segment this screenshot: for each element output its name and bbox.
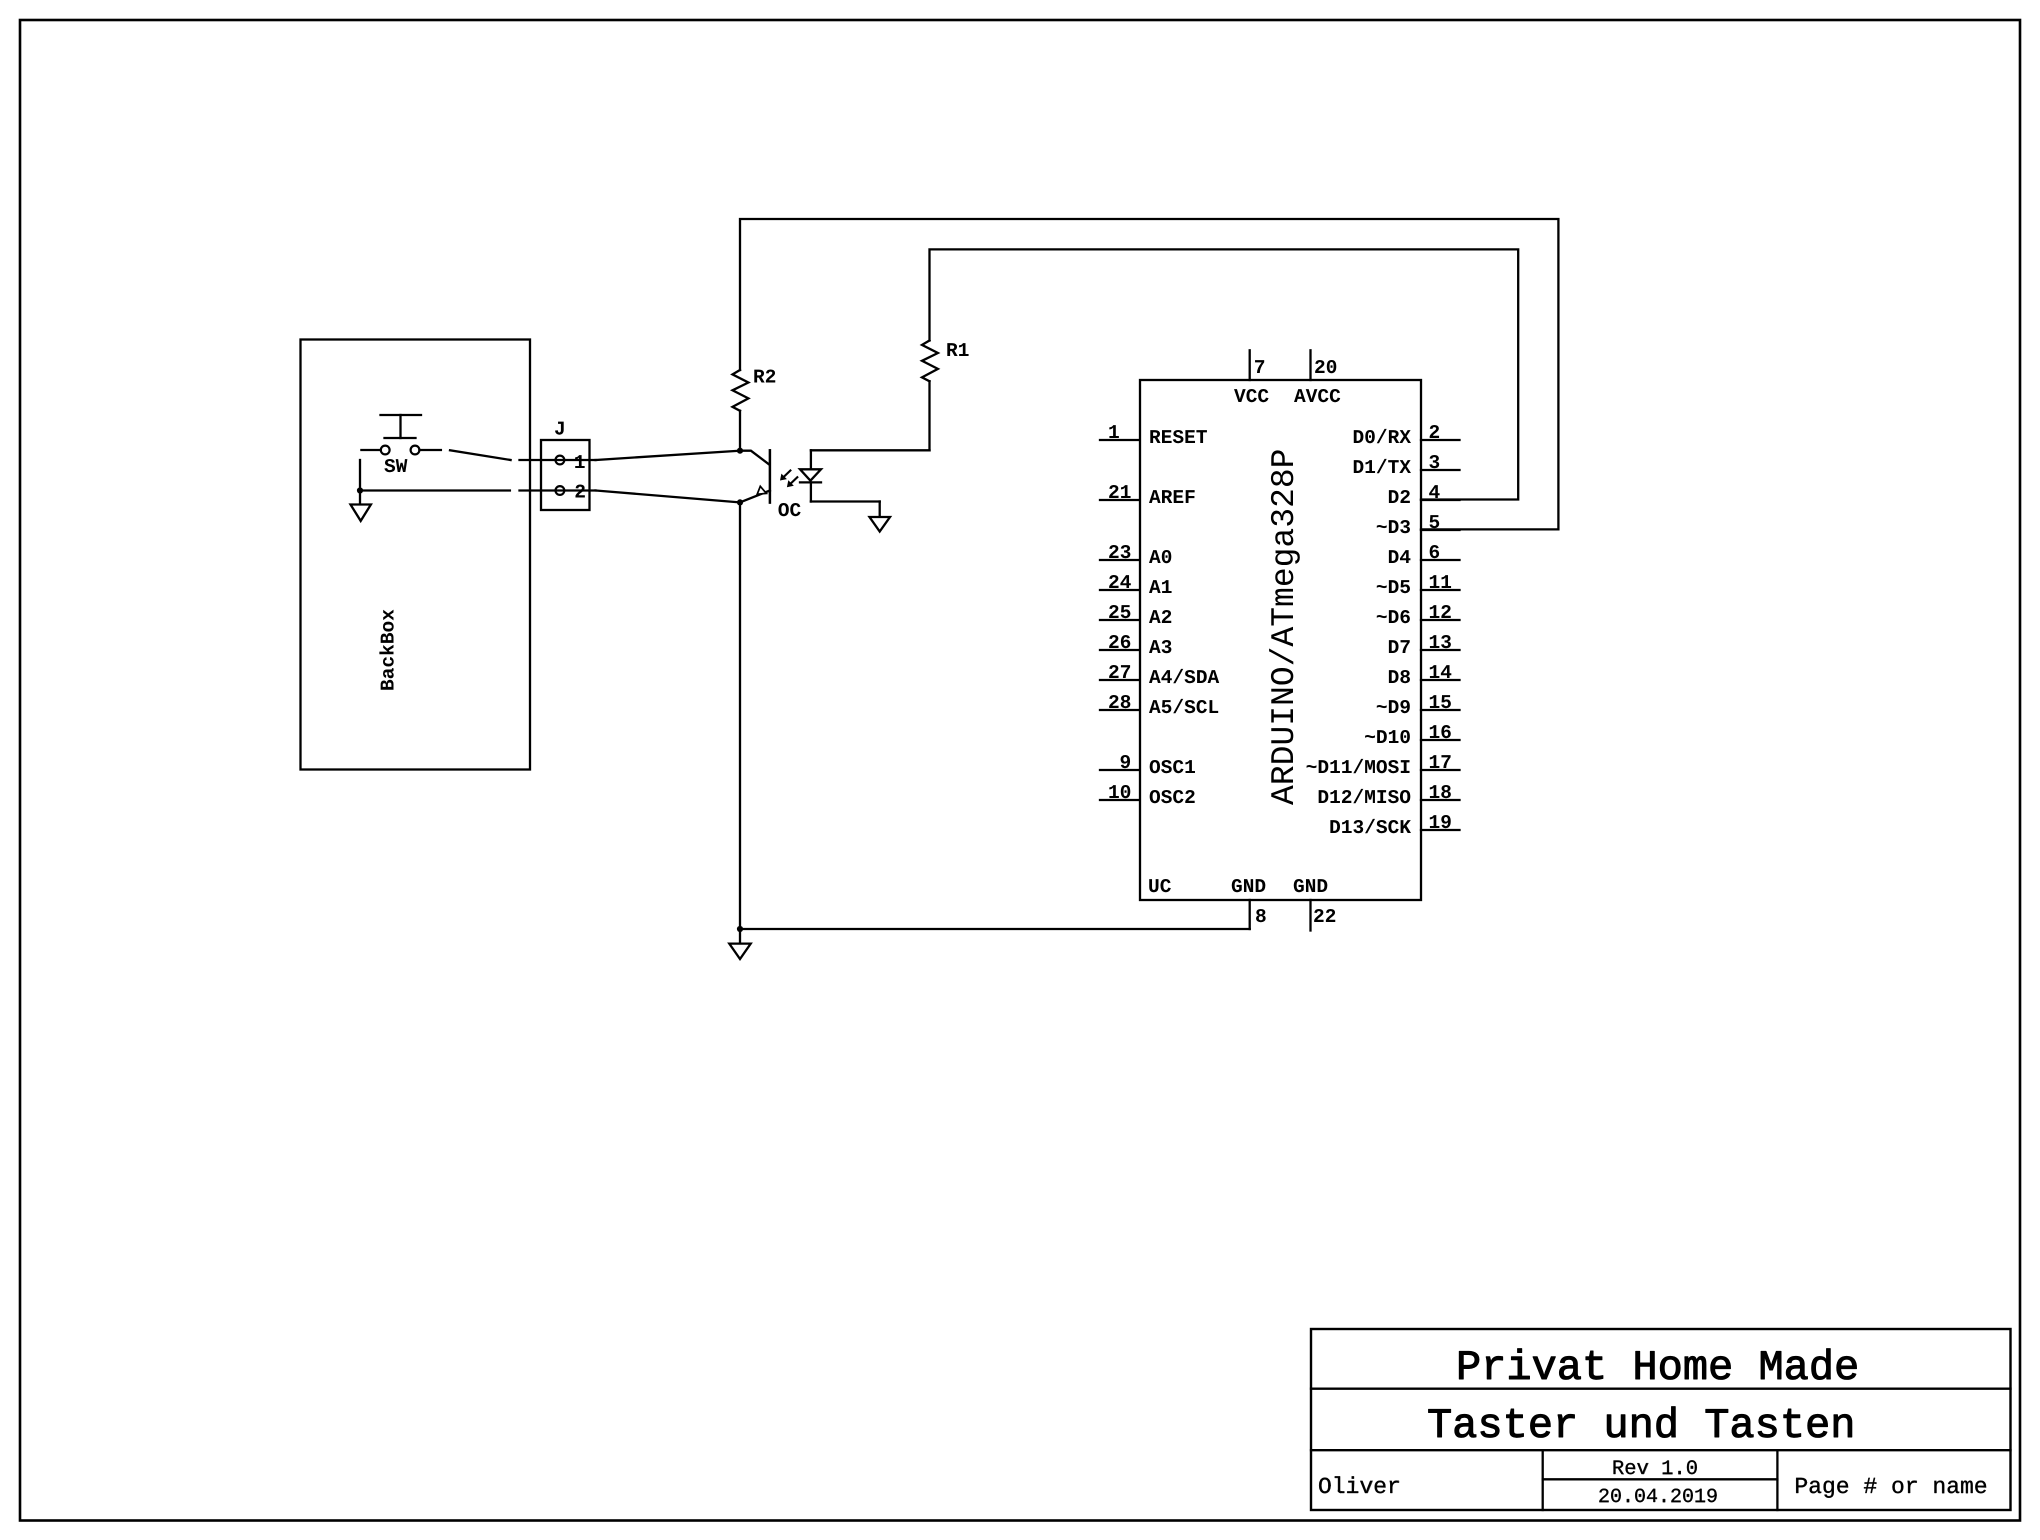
pin 25 A2 [1100,605,1171,623]
pin 23 A0 [1100,545,1171,563]
label SW [384,459,407,472]
wire R1 to LED anode [811,449,930,451]
pin 21 AREF [1100,485,1195,503]
label 20.04.2019 [1599,1489,1716,1503]
label Page # or name [1796,1478,1986,1498]
pin 20 AVCC [1294,350,1340,402]
ground main [729,929,750,959]
node B junction [737,448,743,454]
pin 3 D1/TX [1354,455,1460,473]
pin 18 D12/MISO [1319,785,1460,803]
label R1 [947,343,968,356]
pin 28 A5/SCL [1100,695,1218,713]
pin 16 ~D10 [1365,725,1459,743]
connector J [520,440,596,510]
wire R2 bottom lead [739,411,741,451]
light arrow 2 [787,477,797,487]
label BackBox [379,610,393,690]
pin 4 D2 [1389,485,1460,503]
switch SW [361,415,441,454]
wire GND rail to pin 8 [740,928,1250,930]
node E junction [737,499,743,505]
pin 22 GND [1294,879,1335,931]
ground at LED [870,517,891,532]
pin 24 A1 [1100,575,1172,593]
pin 17 ~D11/MOSI [1307,755,1460,773]
title Privat Home Made [1459,1349,1856,1380]
pin 11 ~D5 [1377,575,1460,593]
ic U1 ARDUINO/ATmega328P body [1140,380,1421,900]
pin 7 VCC [1234,350,1269,402]
pin 2 D0/RX [1354,425,1460,443]
wire VCC rail to D3 [740,219,1558,529]
pin 10 OSC2 [1100,785,1195,803]
pin 1 of J [575,455,585,468]
pin 12 ~D6 [1377,605,1460,623]
wire R1 bottom lead [928,381,930,450]
resistor R2 [733,370,749,411]
wire J pin1 to node B [596,451,740,460]
pin 19 D13/SCK [1330,815,1459,833]
label J [555,422,564,435]
ground at SW [351,491,371,521]
wire J pin2 to node E [596,491,740,503]
wire SW to J pin 1 [450,450,511,460]
pin 13 D7 [1389,635,1460,653]
label OC [778,503,800,516]
pin 26 A3 [1100,635,1171,653]
pin 6 D4 [1389,545,1460,563]
label ARDUINO/ATmega328P [1269,450,1300,805]
label Oliver [1319,1476,1399,1493]
label UC [1149,879,1171,892]
pin 9 OSC1 [1100,755,1195,773]
pin 1 RESET [1100,425,1207,443]
pin 14 D8 [1389,665,1460,683]
pin 5 ~D3 [1377,515,1460,533]
junction SW-GND [357,487,363,493]
transistor OC phototransistor [740,450,770,502]
wire SW bottom row [360,489,510,491]
title Taster und Tasten [1429,1407,1852,1438]
pin 27 A4/SDA [1100,665,1219,683]
title block frame [1311,1329,2011,1510]
wire node E down [739,502,741,929]
pin 2 of J [575,484,584,497]
label Rev 1.0 [1614,1460,1697,1474]
box BackBox [301,340,531,770]
wire R1 rail to D2 [930,249,1519,499]
pin 15 ~D9 [1377,695,1460,713]
pin 8 GND [1232,879,1266,929]
label R2 [754,369,775,382]
led of OC [800,450,821,501]
resistor R1 [922,341,938,382]
wire SW pin1 down [359,460,361,491]
light arrow 1 [780,471,790,481]
junction GND rail [737,926,743,932]
wire LED cathode to ground [811,502,880,517]
